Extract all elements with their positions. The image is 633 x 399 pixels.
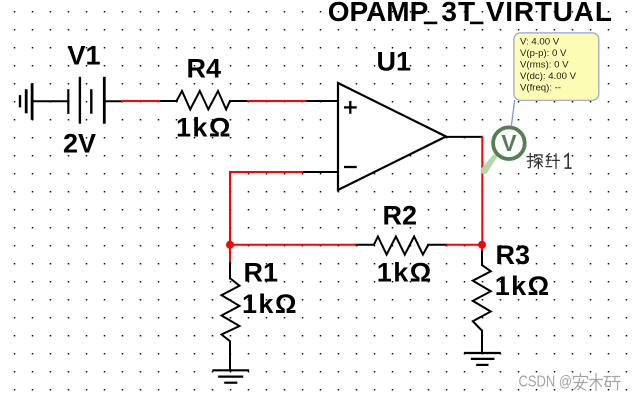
svg-text:2V: 2V (63, 128, 96, 158)
svg-text:V: V (501, 130, 517, 156)
svg-text:V(freq): --: V(freq): -- (520, 83, 561, 94)
svg-text:U1: U1 (377, 47, 412, 77)
svg-text:R4: R4 (187, 54, 222, 84)
svg-text:1kΩ: 1kΩ (377, 257, 433, 287)
svg-text:VIRTUAL: VIRTUAL (486, 0, 613, 27)
svg-text:V(rms): 0 V: V(rms): 0 V (520, 60, 569, 71)
svg-text:1kΩ: 1kΩ (495, 271, 551, 301)
svg-text:1kΩ: 1kΩ (242, 289, 298, 319)
svg-text:R2: R2 (383, 201, 418, 231)
svg-text:CSDN @: CSDN @ (519, 373, 573, 390)
svg-text:R3: R3 (496, 240, 531, 270)
svg-text:R1: R1 (244, 258, 279, 288)
svg-text:1kΩ: 1kΩ (176, 113, 232, 143)
svg-text:V: 4.00 V: V: 4.00 V (520, 37, 560, 48)
svg-text:V(dc): 4.00 V: V(dc): 4.00 V (520, 71, 577, 82)
svg-text:V1: V1 (68, 41, 101, 71)
svg-text:OPAMP: OPAMP (328, 0, 429, 27)
svg-text:V(p-p): 0 V: V(p-p): 0 V (520, 48, 567, 59)
